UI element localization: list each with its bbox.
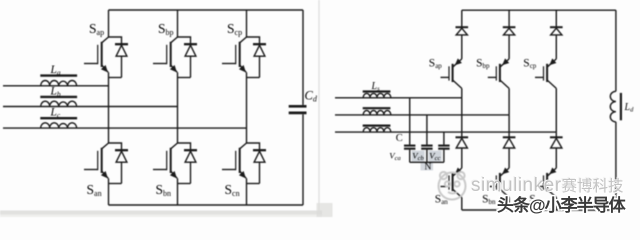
wire: phase b input line (left circuit): [3, 106, 178, 108]
wire: right circuit top DC rail: [462, 9, 616, 11]
svg-text:Vca: Vca: [389, 151, 401, 163]
wire: CSC leg c from top rail: [555, 10, 557, 27]
label C (filter capacitor name): [396, 133, 403, 144]
capacitor Ca (filter cap, phase a): [404, 98, 415, 163]
label Vca (cap a voltage): [389, 151, 401, 163]
inductor line-side phase c (Ls): [363, 126, 391, 133]
inductor Lc (phase c boost inductor): [40, 107, 77, 128]
transistor Sbp (IGBT, top switch CSC leg b): [476, 58, 509, 89]
capacitor Cd (DC-link): [289, 89, 318, 113]
svg-text:San: San: [87, 182, 102, 198]
transistor Sap (IGBT, top switch CSC leg a): [429, 58, 462, 89]
wire: Scn emitter to bottom rail: [555, 198, 557, 211]
diode Dbn (antiparallel with Sbn): [178, 143, 198, 184]
transistor Sbn (IGBT, bottom switch leg b): [153, 143, 178, 198]
diode Dap (antiparallel with Sap): [109, 37, 129, 78]
svg-text:La: La: [50, 64, 61, 77]
svg-text:Scp: Scp: [523, 58, 537, 71]
divider line between the two pictures: [318, 0, 319, 217]
transistor Sbn (IGBT, bottom switch CSC leg b): [482, 168, 509, 207]
wire: phase c node down to bottom diode: [555, 132, 557, 137]
inductor line-side phase b (Ls): [363, 108, 391, 115]
svg-text:Lb: Lb: [50, 85, 61, 98]
wire: phase a input line (left circuit): [3, 85, 109, 87]
wire: phase a node down to bottom diode: [461, 98, 463, 138]
transistor San (IGBT, bottom switch leg a): [84, 143, 109, 198]
node N (capacitor neutral): [425, 163, 432, 173]
svg-text:Sbn: Sbn: [156, 182, 172, 198]
diode Dan (series diode, bottom of leg a): [456, 137, 469, 148]
transistor Scn (IGBT, bottom switch leg c): [222, 143, 247, 198]
wire: right circuit bottom DC rail: [462, 209, 616, 211]
wire: bottom diode to Scn collector: [555, 148, 557, 168]
wire: left circuit right DC rail (lower segment): [302, 114, 304, 205]
wire: left circuit right DC rail (upper segment): [302, 10, 304, 105]
inductor La (phase a boost inductor): [40, 64, 77, 86]
wire: right DC rail upper segment (to Ld): [615, 10, 617, 91]
wire: left circuit top DC rail: [109, 9, 304, 11]
diode Dcp (series diode, top of leg c): [550, 27, 563, 35]
watermark text: simulinker brand: [471, 174, 624, 197]
diode Dan (antiparallel with San): [109, 143, 129, 184]
wire: Sap emitter to phase a node: [461, 88, 463, 97]
transistor San (IGBT, bottom switch CSC leg a): [435, 168, 462, 207]
wire: CSC leg a from top rail: [461, 10, 463, 27]
svg-text:Sbp: Sbp: [476, 58, 490, 71]
diode Dap (series diode, top of leg a): [456, 27, 469, 35]
node highlight boxes behind Vcb / Vcc / N labels: [412, 151, 442, 171]
wire: leg c upper (top rail to Scp): [246, 10, 248, 37]
watermark logo circle: [439, 172, 466, 200]
label Vcc (cap c voltage): [429, 151, 440, 163]
diode Dbp (series diode, top of leg b): [503, 27, 516, 35]
svg-text:Scp: Scp: [227, 21, 242, 37]
svg-text:Scn: Scn: [225, 182, 240, 198]
wire: left circuit bottom DC rail: [109, 204, 304, 206]
wire: phase c input line (right circuit): [335, 131, 556, 133]
wire: phase b input line (right circuit): [335, 114, 509, 116]
wire: CSC leg b from top rail: [508, 10, 510, 27]
svg-text:C: C: [396, 133, 403, 144]
wire: leg b upper (top rail to Sbp): [177, 10, 179, 37]
wire: San emitter to bottom rail: [461, 198, 463, 211]
svg-text:Ls: Ls: [371, 81, 381, 93]
svg-text:Sbp: Sbp: [158, 21, 174, 37]
svg-text:Cd: Cd: [305, 89, 318, 104]
label Vcb (cap b voltage): [412, 151, 424, 163]
wire: leg a midpoint (phase a node): [108, 78, 110, 144]
capacitor Cc (filter cap, phase c): [438, 132, 449, 162]
diode Dbn (series diode, bottom of leg b): [503, 137, 516, 148]
inductor Ld (DC-link inductor): [610, 91, 634, 122]
wire: diode to Sap collector: [461, 35, 463, 59]
wire: leg a emitter to bottom rail: [108, 184, 110, 206]
wire: bottom diode to San collector: [461, 148, 463, 168]
wire: leg b midpoint (phase b node): [177, 78, 179, 144]
wire: Sbn emitter to bottom rail: [508, 198, 510, 211]
wire: diode to Sbp collector: [508, 35, 510, 59]
svg-text:Lc: Lc: [50, 107, 61, 120]
wire: neutral bus joining filter caps: [410, 161, 444, 163]
transistor Scp (IGBT, top switch CSC leg c): [523, 58, 556, 89]
diode Dcp (antiparallel with Scp): [247, 37, 267, 78]
diode Dbp (antiparallel with Sbp): [178, 37, 198, 78]
wire: right DC rail lower segment (Ld to bottom rail): [615, 122, 617, 210]
inductor line-side phase a (Ls): [363, 81, 391, 98]
wire: leg c midpoint (phase c node): [246, 78, 248, 144]
bottom shadow band of left picture: [0, 203, 333, 217]
wire: bottom diode to Sbn collector: [508, 148, 510, 168]
wire: diode to Scp collector: [555, 35, 557, 59]
transistor Sbp (IGBT, top switch leg b): [153, 21, 178, 78]
wire: leg a upper (top rail to Sap): [108, 10, 110, 37]
transistor Scp (IGBT, top switch leg c): [222, 21, 247, 78]
svg-text:N: N: [425, 163, 432, 173]
wire: phase a input line (right circuit): [335, 97, 462, 99]
svg-text:Sap: Sap: [429, 58, 443, 71]
wire: phase b node down to bottom diode: [508, 115, 510, 137]
capacitor Cb (filter cap, phase b): [421, 115, 432, 162]
wire: Sbp emitter to phase b node: [508, 88, 510, 115]
diode Dcn (antiparallel with Scn): [247, 143, 267, 184]
wire: Scp emitter to phase c node: [555, 88, 557, 132]
transistor Scn (IGBT, bottom switch CSC leg c): [529, 168, 556, 207]
transistor Sap (IGBT, top switch leg a): [84, 21, 109, 78]
wire: leg c emitter to bottom rail: [246, 184, 248, 206]
wire: leg b emitter to bottom rail: [177, 184, 179, 206]
svg-text:Sap: Sap: [89, 21, 104, 37]
inductor Lb (phase b boost inductor): [40, 85, 77, 106]
diode Dcn (series diode, bottom of leg c): [550, 137, 563, 148]
watermark text: toutiao handle: [497, 191, 625, 216]
wire: phase c input line (left circuit): [3, 127, 247, 129]
svg-text:Ld: Ld: [624, 102, 635, 114]
